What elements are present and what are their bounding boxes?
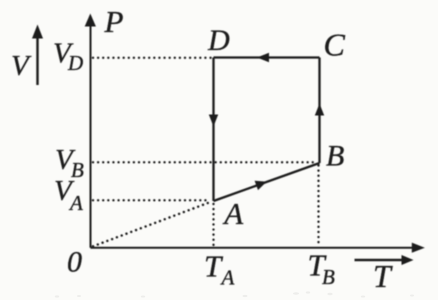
svg-text:B: B: [326, 140, 344, 173]
svg-text:B: B: [71, 158, 84, 182]
svg-text:T: T: [373, 258, 393, 294]
svg-text:A: A: [68, 191, 83, 215]
svg-text:A: A: [220, 265, 235, 289]
svg-text:B: B: [322, 265, 335, 289]
svg-text:D: D: [67, 51, 83, 75]
svg-text:P: P: [104, 4, 124, 39]
svg-text:0: 0: [67, 245, 82, 278]
svg-text:D: D: [207, 24, 230, 57]
svg-text:C: C: [324, 27, 346, 63]
svg-text:A: A: [222, 196, 244, 231]
